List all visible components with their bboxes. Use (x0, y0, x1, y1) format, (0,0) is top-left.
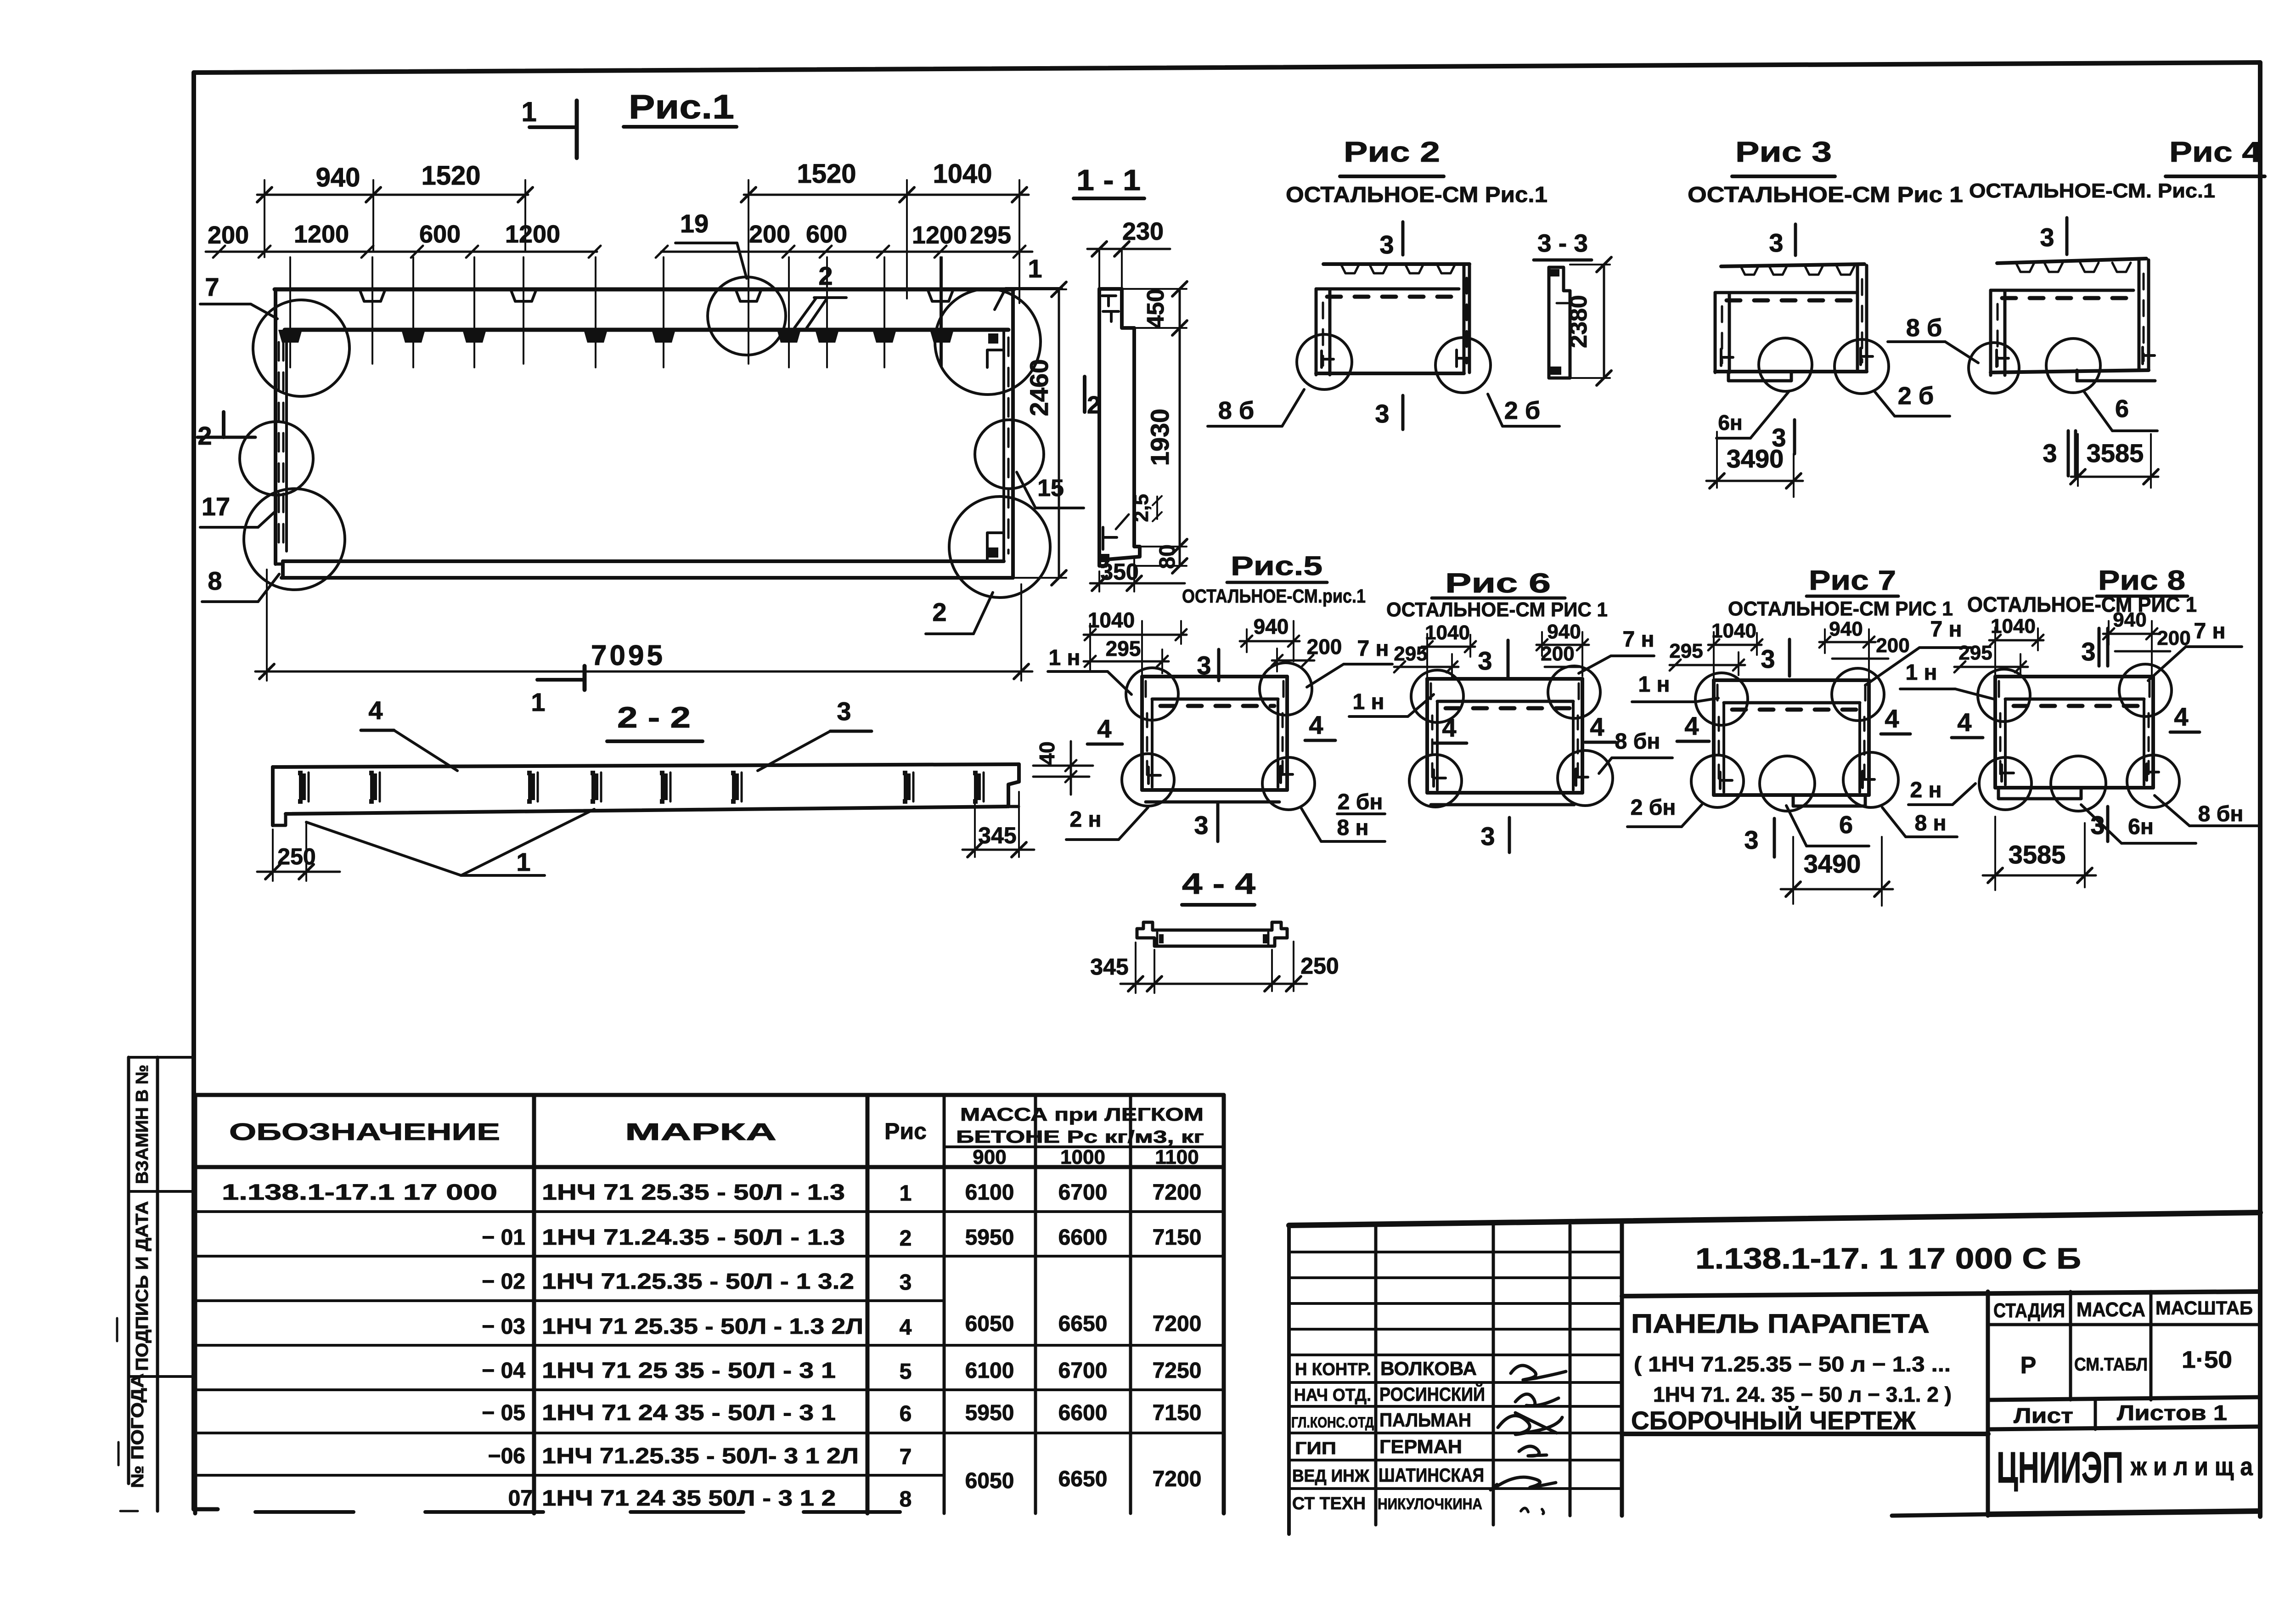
svg-text:1520: 1520 (797, 159, 856, 189)
label 7 н (Рис.8) (2148, 619, 2242, 681)
Рис.5 title (1182, 551, 1366, 607)
svg-text:1: 1 (531, 688, 545, 716)
Рис.8 section mark 3 (top) (2081, 628, 2108, 666)
svg-text:200: 200 (1876, 634, 1909, 657)
table row 8 (508, 1467, 1202, 1512)
title block frame (1289, 1213, 2260, 1534)
Рис.1 title (624, 88, 737, 127)
svg-text:6600: 6600 (1058, 1401, 1108, 1425)
svg-text:4: 4 (900, 1315, 912, 1340)
section 1-1 dimensions 450/1930/80 (1122, 282, 1187, 573)
svg-text:1НЧ 71 25.35 - 50Л - 1.3 2Л: 1НЧ 71 25.35 - 50Л - 1.3 2Л (542, 1314, 863, 1339)
svg-text:1520: 1520 (421, 161, 480, 191)
section 1-1 dimension 350 (1090, 559, 1185, 592)
svg-text:6050: 6050 (965, 1469, 1014, 1493)
svg-text:5: 5 (900, 1360, 912, 1384)
svg-text:2: 2 (932, 598, 946, 626)
Рис.1 panel left flange (276, 289, 287, 564)
svg-text:6600: 6600 (1058, 1225, 1108, 1250)
svg-text:2: 2 (818, 261, 833, 290)
svg-text:3: 3 (1478, 646, 1492, 675)
svg-text:8 бн: 8 бн (2198, 802, 2244, 826)
Рис.6 body (1427, 679, 1588, 805)
svg-text:ОСТАЛЬНОЕ-СМ Рис.1: ОСТАЛЬНОЕ-СМ Рис.1 (1286, 183, 1548, 207)
svg-text:ГЛ.КОНС.ОТД: ГЛ.КОНС.ОТД (1291, 1414, 1374, 1431)
svg-text:4: 4 (1442, 713, 1456, 742)
svg-text:3: 3 (1761, 644, 1775, 673)
svg-text:6650: 6650 (1058, 1312, 1108, 1336)
svg-text:4: 4 (368, 696, 383, 725)
svg-text:2380: 2380 (1565, 295, 1592, 348)
svg-text:ПАНЕЛЬ ПАРАПЕТА: ПАНЕЛЬ ПАРАПЕТА (1631, 1309, 1930, 1339)
svg-text:4: 4 (1684, 711, 1699, 740)
svg-text:8: 8 (900, 1487, 912, 1512)
svg-text:2: 2 (1087, 391, 1101, 419)
Рис.1 dimension row 940/1520/1520/1040 (257, 159, 1029, 303)
svg-text:200: 200 (749, 220, 790, 248)
section 4-4 dimensions 345/250 (1090, 942, 1339, 993)
svg-text:6: 6 (1839, 811, 1853, 839)
svg-text:БЕТОНЕ Рс кг/м3, кг: БЕТОНЕ Рс кг/м3, кг (956, 1128, 1204, 1147)
label 17 (200, 492, 276, 527)
svg-text:1040: 1040 (1425, 621, 1470, 644)
svg-text:ГИП: ГИП (1295, 1439, 1336, 1458)
svg-text:7: 7 (205, 272, 219, 301)
svg-text:7150: 7150 (1153, 1225, 1202, 1250)
label 7 (200, 272, 277, 319)
Рис.8 side marks 4 (1952, 702, 2200, 738)
Рис.1 dimension row 200/1200/600/1200/200/600/1200/295 (206, 220, 1032, 258)
Рис.7 section mark 3 (bottom) (1744, 818, 1774, 857)
svg-text:940: 940 (2113, 609, 2146, 631)
section flag 2 (left) (197, 412, 255, 450)
section flag 2 (right of Рис.1) (1085, 377, 1101, 419)
Рис.4 body (1991, 259, 2155, 381)
svg-text:Листов 1: Листов 1 (2117, 1401, 2227, 1425)
svg-text:Рис 3: Рис 3 (1735, 136, 1832, 168)
Рис.8 top dimensions (1954, 609, 2191, 677)
label 8 бн (Рис.8) (2155, 795, 2259, 826)
svg-text:4: 4 (1097, 714, 1111, 743)
table row 4 (482, 1312, 1201, 1340)
Рис.3 title (1688, 136, 1963, 207)
Рис.3 dimension 3490 (1706, 432, 1803, 497)
svg-text:1 - 1: 1 - 1 (1076, 164, 1141, 197)
label 7 н (Рис.5) (1307, 637, 1392, 687)
svg-text:НАЧ ОТД.: НАЧ ОТД. (1294, 1386, 1371, 1405)
svg-text:6050: 6050 (965, 1312, 1014, 1336)
svg-text:1НЧ 71 25.35 - 50Л - 1.3: 1НЧ 71 25.35 - 50Л - 1.3 (542, 1180, 845, 1205)
label 2 б (Рис.2) (1488, 394, 1559, 426)
svg-text:Лист: Лист (2014, 1404, 2073, 1427)
svg-text:6650: 6650 (1058, 1467, 1108, 1491)
label 8 (202, 566, 279, 602)
labels 2 бн / 8 н (Рис.5) (1301, 790, 1385, 841)
svg-text:8 н: 8 н (1337, 816, 1368, 840)
svg-text:Рис 6: Рис 6 (1445, 568, 1551, 598)
svg-text:3: 3 (1375, 399, 1389, 428)
svg-text:450: 450 (1142, 289, 1169, 329)
leader 1 (2-2 rebar) (306, 809, 594, 876)
svg-text:3490: 3490 (1727, 444, 1784, 473)
svg-text:4: 4 (1957, 708, 1971, 737)
label 8 б (Рис.3/Рис.4) (1888, 314, 1978, 363)
svg-text:6700: 6700 (1058, 1180, 1108, 1205)
svg-text:8: 8 (208, 566, 222, 595)
svg-text:− 03: − 03 (482, 1314, 525, 1339)
svg-text:940: 940 (1547, 621, 1581, 643)
svg-text:4: 4 (1885, 704, 1899, 733)
svg-text:1: 1 (1028, 254, 1042, 283)
svg-text:ВЕД ИНЖ: ВЕД ИНЖ (1292, 1467, 1370, 1486)
Рис.5 section mark 3 (top) (1197, 649, 1219, 681)
svg-text:3: 3 (2081, 637, 2095, 666)
label 1 н (Рис.8) (1900, 660, 1994, 699)
section flag 1 (top) (521, 96, 577, 158)
svg-text:1: 1 (516, 847, 530, 876)
label 6 (Рис.7) (1786, 806, 1869, 846)
svg-text:1040: 1040 (1088, 608, 1135, 632)
svg-text:7: 7 (900, 1445, 912, 1469)
svg-text:НИКУЛОЧКИНА: НИКУЛОЧКИНА (1378, 1495, 1482, 1513)
label 7 н (Рис.6) (1579, 627, 1654, 673)
svg-text:ВЗАМИН В №: ВЗАМИН В № (133, 1065, 152, 1184)
svg-text:250: 250 (1300, 953, 1339, 979)
svg-text:( 1НЧ 71.25.35 − 50 л − 1.3 ..: ( 1НЧ 71.25.35 − 50 л − 1.3 ... (1634, 1352, 1951, 1376)
svg-text:4 - 4: 4 - 4 (1182, 867, 1256, 900)
svg-text:СМ.ТАБЛ: СМ.ТАБЛ (2074, 1354, 2148, 1375)
svg-text:3 - 3: 3 - 3 (1537, 230, 1588, 257)
table row 3 (482, 1269, 912, 1295)
Рис.2 section marks 3-3 (1375, 222, 1403, 429)
left margin strip (117, 1057, 194, 1511)
specification table (195, 1095, 1224, 1513)
svg-text:6н: 6н (1718, 411, 1742, 434)
svg-text:−06: −06 (488, 1444, 525, 1468)
svg-text:7 н: 7 н (1622, 627, 1654, 652)
dimension 7095 (255, 570, 1032, 681)
svg-text:1000: 1000 (1060, 1146, 1105, 1168)
Рис.7 detail circles (1691, 668, 1898, 811)
Рис.6 top dimensions (1394, 621, 1589, 677)
svg-text:3: 3 (2043, 439, 2057, 468)
svg-text:2 бн: 2 бн (1338, 790, 1383, 814)
svg-text:2 н: 2 н (1069, 807, 1101, 832)
svg-text:ГЕРМАН: ГЕРМАН (1379, 1436, 1462, 1457)
Рис.4 title (1969, 136, 2265, 202)
Рис.5 detail circles (1122, 663, 1315, 810)
svg-text:7 н: 7 н (2194, 619, 2225, 643)
section 1-1 dimension 230 (1087, 218, 1170, 289)
Рис.1 lifting loop cutouts (360, 257, 953, 364)
svg-text:1 н: 1 н (1638, 672, 1670, 697)
label 3 (2-2) (758, 697, 872, 771)
svg-text:295: 295 (1106, 637, 1141, 660)
Рис.4 dimension 3585 (2071, 434, 2158, 488)
svg-text:940: 940 (1254, 615, 1289, 638)
svg-text:1040: 1040 (1711, 620, 1756, 642)
Рис.7 title (1728, 565, 1953, 620)
table row 6 (482, 1401, 1201, 1426)
Рис.3 body (1715, 264, 1873, 381)
svg-text:3: 3 (837, 697, 851, 726)
svg-text:8 б: 8 б (1906, 314, 1942, 342)
section 2-2 rebar marks (298, 771, 984, 804)
Рис.4 section marks (2040, 218, 2076, 476)
svg-text:2 б: 2 б (1504, 397, 1540, 424)
Рис.7 side marks 4 (1677, 704, 1910, 741)
svg-text:МАРКА: МАРКА (625, 1119, 777, 1145)
section 1-1 anchor hooks (1101, 296, 1129, 562)
svg-text:345: 345 (978, 823, 1016, 848)
svg-text:19: 19 (680, 209, 709, 238)
Рис.2 detail circles (1297, 334, 1491, 393)
svg-text:ОСТАЛЬНОЕ-СМ РИС 1: ОСТАЛЬНОЕ-СМ РИС 1 (1386, 598, 1608, 621)
svg-text:1100: 1100 (1155, 1146, 1199, 1168)
label 2 (bottom right) (926, 592, 993, 634)
revision table grid (1289, 1225, 1622, 1525)
svg-text:1040: 1040 (1991, 615, 2036, 637)
svg-text:7150: 7150 (1153, 1401, 1202, 1425)
svg-text:СТАДИЯ: СТАДИЯ (1993, 1299, 2065, 1322)
svg-text:7250: 7250 (1153, 1359, 1202, 1383)
Рис.5 body (1142, 677, 1293, 802)
Рис.8 section mark 3 (bottom) (2090, 807, 2108, 841)
Рис.6 section mark 3 (bottom) (1480, 818, 1509, 852)
svg-text:1НЧ 71.24.35 - 50Л - 1.3: 1НЧ 71.24.35 - 50Л - 1.3 (542, 1225, 845, 1250)
svg-text:1200: 1200 (294, 220, 349, 248)
svg-text:17: 17 (202, 492, 230, 521)
label 7 н (Рис.7) (1865, 617, 1971, 685)
svg-text:3: 3 (900, 1270, 912, 1295)
svg-text:295: 295 (1669, 640, 1703, 662)
svg-text:1 н: 1 н (1352, 690, 1384, 714)
svg-text:Рис.1: Рис.1 (629, 88, 734, 126)
svg-text:ж и л и щ а: ж и л и щ а (2130, 1452, 2253, 1481)
svg-text:6: 6 (900, 1402, 912, 1426)
svg-text:1·50: 1·50 (2182, 1347, 2232, 1373)
Рис.6 detail circles (1409, 666, 1613, 807)
Рис.1 panel bottom band (281, 561, 1013, 578)
svg-text:200: 200 (1541, 643, 1574, 665)
svg-text:8 б: 8 б (1218, 397, 1254, 424)
svg-text:295: 295 (1394, 643, 1427, 665)
svg-text:− 02: − 02 (482, 1269, 525, 1294)
section 1-1 outline (1099, 289, 1140, 566)
label 1 н (Рис.7) (1632, 672, 1718, 702)
Рис.4 detail circles (1969, 338, 2100, 393)
svg-text:6: 6 (2115, 395, 2129, 423)
table row 2 (482, 1225, 1201, 1251)
svg-text:40: 40 (1035, 741, 1059, 765)
label 6 (Рис.4) (2084, 391, 2157, 431)
svg-text:250: 250 (277, 844, 315, 869)
label 1 н (Рис.5) (1048, 646, 1131, 694)
Рис.1 vertical reference lines through band (290, 257, 942, 367)
svg-text:Рис 2: Рис 2 (1344, 136, 1440, 168)
label 2 н (Рис.5) (1066, 807, 1148, 840)
svg-text:Рис 4: Рис 4 (2169, 136, 2262, 168)
svg-text:1НЧ 71. 24. 35 − 50 л − 3.1. 2: 1НЧ 71. 24. 35 − 50 л − 3.1. 2 ) (1653, 1382, 1952, 1406)
svg-text:ПАЛЬМАН: ПАЛЬМАН (1379, 1409, 1471, 1431)
document number 1.138.1-17.1 17 000 СБ (1695, 1242, 2081, 1275)
Рис.1 anchor teeth (278, 330, 954, 343)
svg-text:350: 350 (1100, 559, 1138, 585)
label 4 (2-2) (361, 696, 457, 771)
svg-text:940: 940 (1829, 618, 1863, 640)
label 1 н (Рис.6) (1349, 690, 1434, 716)
Рис.3 section marks (1769, 224, 1795, 454)
bottom torn-edge dashes (255, 1510, 900, 1514)
svg-text:5950: 5950 (965, 1401, 1014, 1425)
svg-text:Рис 8: Рис 8 (2098, 565, 2185, 596)
svg-text:СБОРОЧНЫЙ ЧЕРТЕЖ: СБОРОЧНЫЙ ЧЕРТЕЖ (1631, 1406, 1916, 1435)
svg-text:7 н: 7 н (1930, 617, 1962, 642)
svg-text:РОСИНСКИЙ: РОСИНСКИЙ (1379, 1383, 1485, 1405)
Рис.5 section mark 3 (bottom) (1194, 804, 1218, 841)
svg-text:4: 4 (2174, 702, 2188, 731)
svg-text:2,5: 2,5 (1130, 494, 1153, 522)
svg-text:7200: 7200 (1153, 1467, 1202, 1491)
Рис.7 body (1714, 680, 1874, 806)
section 2-2 dimension 345 (962, 786, 1034, 857)
Рис.5 side marks 4 (1087, 711, 1335, 744)
svg-text:5950: 5950 (965, 1225, 1014, 1250)
svg-text:ОСТАЛЬНОЕ-СМ РИС 1: ОСТАЛЬНОЕ-СМ РИС 1 (1728, 598, 1953, 620)
svg-text:1: 1 (521, 96, 536, 127)
svg-text:3: 3 (1379, 230, 1394, 259)
section 4-4 outline (1137, 922, 1287, 946)
Рис.2 title (1286, 136, 1548, 207)
svg-text:ОСТАЛЬНОЕ-СМ. Рис.1: ОСТАЛЬНОЕ-СМ. Рис.1 (1969, 180, 2215, 202)
svg-text:8 бн: 8 бн (1615, 729, 1660, 754)
label 6н (Рис.8) (2081, 805, 2196, 843)
label 19 (675, 209, 747, 278)
svg-text:7200: 7200 (1153, 1180, 1202, 1205)
svg-text:1930: 1930 (1145, 409, 1174, 466)
svg-text:1НЧ 71.25.35 - 50Л- 3 1 2Л: 1НЧ 71.25.35 - 50Л- 3 1 2Л (542, 1444, 859, 1468)
section 2-2 bar outline (273, 764, 1019, 825)
label 8 бн (Рис.6) (1599, 729, 1672, 773)
svg-text:1НЧ 71 24 35 50Л - 3 1 2: 1НЧ 71 24 35 50Л - 3 1 2 (542, 1486, 836, 1511)
Рис.8 detail circles (1978, 664, 2179, 811)
svg-text:ВОЛКОВА: ВОЛКОВА (1380, 1358, 1477, 1379)
svg-text:940: 940 (316, 163, 360, 192)
svg-text:200: 200 (208, 221, 249, 249)
organization ЦНИИЭП ЖИЛИЩА (1892, 1443, 2257, 1516)
signature table texts (1291, 1358, 1485, 1513)
svg-text:2460: 2460 (1024, 359, 1053, 417)
svg-text:345: 345 (1090, 954, 1128, 980)
svg-text:3: 3 (1194, 811, 1208, 840)
svg-text:Рис 7: Рис 7 (1809, 565, 1896, 596)
Рис.1 panel right flange (1004, 289, 1013, 578)
svg-text:6н: 6н (2128, 815, 2154, 839)
svg-text:3: 3 (1744, 825, 1758, 854)
Рис.1 right corner brackets (987, 333, 1004, 561)
svg-text:2 - 2: 2 - 2 (617, 701, 691, 734)
svg-text:295: 295 (970, 221, 1011, 249)
table row 5 (482, 1359, 1201, 1384)
Рис.1 detail circles (240, 277, 1050, 598)
svg-text:1 н: 1 н (1905, 660, 1937, 685)
svg-text:7200: 7200 (1153, 1312, 1202, 1336)
svg-text:1200: 1200 (505, 220, 560, 248)
label 2 (top leader) (794, 261, 846, 330)
Рис.7 top dimensions (1669, 618, 1909, 679)
table row 1 (222, 1180, 1201, 1206)
svg-text:МАССА при ЛЕГКОМ: МАССА при ЛЕГКОМ (960, 1105, 1204, 1125)
Рис.6 side marks 4 (1434, 712, 1615, 743)
svg-text:1040: 1040 (933, 159, 992, 189)
labels 2 н / 8 н (between Рис.7 and Рис.8) (1882, 778, 1975, 837)
label 1 (right) (995, 254, 1062, 310)
svg-text:3: 3 (1480, 822, 1495, 851)
section 1-1 dimension 2,5 (1130, 494, 1162, 522)
svg-text:4: 4 (1590, 712, 1604, 741)
Рис.3 detail circles (1759, 338, 1889, 394)
svg-text:600: 600 (419, 220, 461, 248)
svg-text:7095: 7095 (591, 640, 665, 671)
svg-text:№ ПОГОДА: № ПОГОДА (128, 1373, 147, 1488)
svg-text:3585: 3585 (2087, 439, 2144, 468)
svg-text:Рис.5: Рис.5 (1231, 551, 1322, 581)
Рис.8 dimension 3585 (1983, 817, 2096, 890)
svg-text:1200: 1200 (912, 221, 967, 249)
svg-text:4: 4 (1309, 711, 1323, 739)
stage/mass/scale cells (1988, 1292, 2260, 1400)
svg-text:7 н: 7 н (1357, 637, 1389, 661)
label 6н (Рис.3) (1716, 391, 1789, 438)
drawing name (1631, 1309, 1952, 1435)
svg-text:СТ ТЕХН: СТ ТЕХН (1292, 1494, 1366, 1513)
svg-text:3: 3 (1197, 651, 1211, 680)
svg-text:3: 3 (2040, 223, 2054, 252)
svg-text:1.138.1-17. 1 17 000 С Б: 1.138.1-17. 1 17 000 С Б (1695, 1242, 2081, 1275)
svg-text:ОСТАЛЬНОЕ-СМ Рис 1: ОСТАЛЬНОЕ-СМ Рис 1 (1688, 183, 1963, 207)
Рис.6 section mark 3 (top) (1478, 640, 1508, 678)
svg-text:900: 900 (973, 1146, 1006, 1168)
svg-text:Рис: Рис (884, 1118, 927, 1144)
table row 7 (488, 1444, 912, 1469)
Рис.8 title (1967, 565, 2197, 616)
svg-text:2 б: 2 б (1898, 382, 1934, 410)
svg-text:1НЧ 71 25 35 - 50Л - 3 1: 1НЧ 71 25 35 - 50Л - 3 1 (542, 1359, 836, 1383)
svg-text:ОСТАЛЬНОЕ-СМ.рис.1: ОСТАЛЬНОЕ-СМ.рис.1 (1182, 585, 1366, 607)
svg-text:6100: 6100 (965, 1359, 1014, 1383)
Рис.5 top dimensions (1084, 608, 1342, 675)
svg-text:1НЧ 71.25.35 - 50Л - 1 3.2: 1НЧ 71.25.35 - 50Л - 1 3.2 (542, 1269, 854, 1294)
svg-text:3490: 3490 (1804, 849, 1861, 878)
svg-text:ЦНИИЭП: ЦНИИЭП (1997, 1443, 2123, 1492)
section 3-3 view (1534, 230, 1592, 378)
svg-text:− 05: − 05 (482, 1401, 525, 1425)
table header texts (229, 1105, 1204, 1168)
Рис.7 section mark 3 (top) (1761, 639, 1790, 676)
label 2 бн (Рис.7) (1627, 795, 1702, 827)
dimension 40 (left of Рис.5) (1033, 741, 1093, 795)
svg-text:3585: 3585 (2009, 840, 2066, 869)
section 2-2 title (607, 701, 703, 741)
section 1-1 title (1074, 164, 1144, 198)
label 8 б (left of Рис.2) (1208, 389, 1304, 426)
svg-text:МАСШТАБ: МАСШТАБ (2155, 1297, 2253, 1319)
svg-text:600: 600 (806, 220, 847, 248)
svg-text:ОБОЗНАЧЕНИЕ: ОБОЗНАЧЕНИЕ (229, 1119, 500, 1145)
title block inner frame (1622, 1292, 2260, 1516)
svg-text:1НЧ 71 24 35 - 50Л - 3 1: 1НЧ 71 24 35 - 50Л - 3 1 (542, 1401, 836, 1425)
svg-text:6700: 6700 (1058, 1359, 1108, 1383)
